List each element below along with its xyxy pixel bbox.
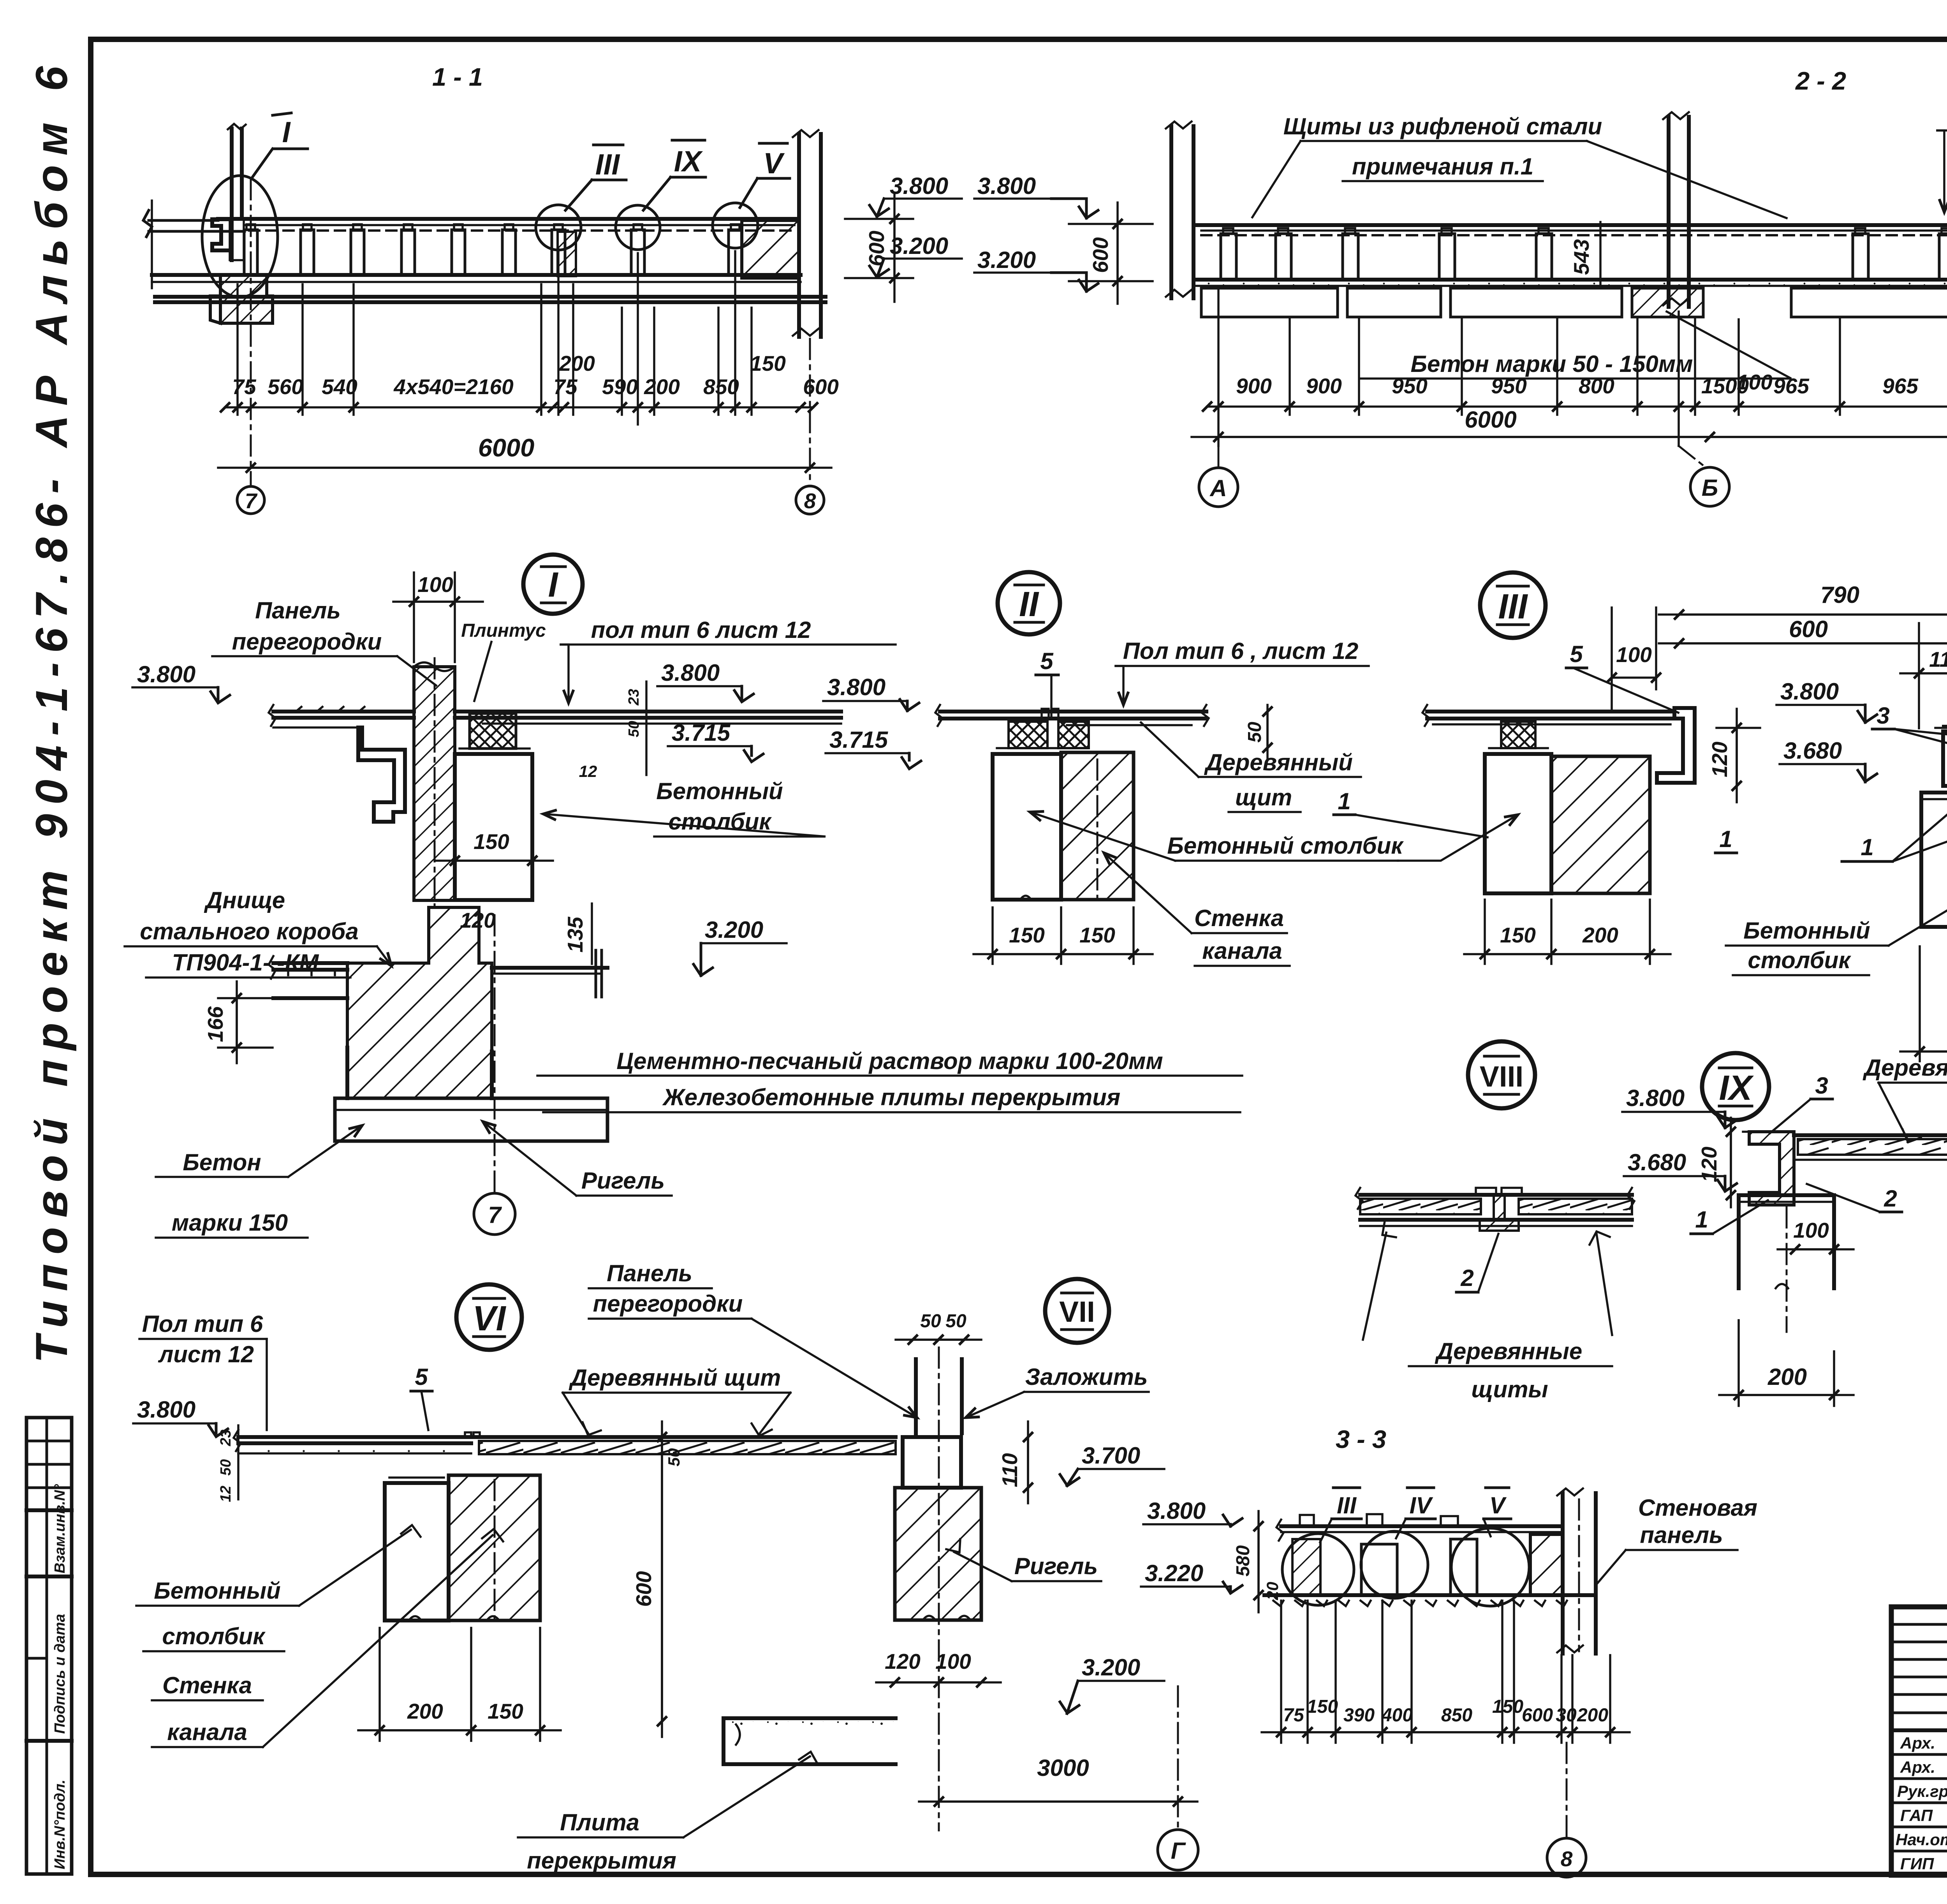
svg-text:6000: 6000 bbox=[478, 433, 535, 462]
dim 110 (detail IV) bbox=[1900, 623, 1947, 728]
support posts row (section 1-1) bbox=[244, 224, 742, 275]
floor slab band (section 2-2) bbox=[1194, 278, 1947, 282]
small stacked dims 23/50/12 (detail I) bbox=[579, 682, 646, 780]
rotated dim 120 (detail IX) bbox=[1697, 1118, 1731, 1207]
svg-text:150: 150 bbox=[1009, 923, 1045, 947]
svg-text:100: 100 bbox=[935, 1649, 971, 1673]
svg-text:V: V bbox=[1489, 1492, 1507, 1518]
dims 200 150 (detail VI) bbox=[358, 1628, 561, 1741]
svg-text:Бетон: Бетон bbox=[183, 1149, 261, 1175]
cross-hatched pad (detail III) bbox=[1501, 722, 1535, 748]
elevation 3.800 right (detail I) bbox=[657, 660, 753, 702]
floor slab band bbox=[152, 273, 801, 277]
svg-text:1: 1 bbox=[1338, 788, 1350, 814]
svg-text:3.220: 3.220 bbox=[1145, 1560, 1203, 1586]
svg-text:600: 600 bbox=[1522, 1705, 1553, 1726]
svg-text:Деревянный: Деревянный bbox=[1204, 749, 1353, 775]
detail circle IX on section 1-1 bbox=[616, 205, 660, 250]
axis bubble 7 (section 1-1) bbox=[237, 486, 264, 514]
vertical dim 600 (left of 2-2) bbox=[1069, 203, 1153, 304]
svg-text:75: 75 bbox=[1283, 1705, 1304, 1726]
svg-text:столбик: столбик bbox=[162, 1623, 266, 1649]
svg-text:IX: IX bbox=[674, 145, 703, 178]
svg-text:120: 120 bbox=[1708, 742, 1732, 777]
svg-text:135: 135 bbox=[563, 916, 587, 953]
svg-text:3.680: 3.680 bbox=[1628, 1149, 1686, 1175]
label: Бетонный столбик (detail VI) bbox=[136, 1525, 421, 1651]
elevation 3.800 (detail VI) bbox=[133, 1397, 228, 1437]
extension line left of 1-1 with breaks bbox=[151, 201, 153, 288]
svg-text:120: 120 bbox=[1697, 1147, 1721, 1182]
svg-text:600: 600 bbox=[632, 1571, 656, 1607]
svg-text:2: 2 bbox=[1884, 1185, 1897, 1212]
svg-text:3.715: 3.715 bbox=[829, 727, 889, 753]
svg-text:150: 150 bbox=[750, 351, 786, 375]
svg-text:ГАП: ГАП bbox=[1900, 1806, 1933, 1825]
svg-text:Цементно-песчаный раствор ма: Цементно-песчаный раствор марки 100-20мм bbox=[616, 1048, 1163, 1074]
svg-text:V: V bbox=[763, 147, 785, 180]
vertical dim 600 (detail VI right) bbox=[632, 1421, 662, 1737]
svg-text:Инв.N°подл.: Инв.N°подл. bbox=[52, 1779, 68, 1869]
Z-edge profile (detail III) bbox=[1657, 708, 1695, 783]
svg-text:200: 200 bbox=[1577, 1705, 1608, 1726]
deck wood segment (detail VI) bbox=[465, 1432, 896, 1454]
dims 50 50 (detail VII top) bbox=[896, 1311, 981, 1340]
rotated dim 50 (detail II) bbox=[1245, 705, 1267, 759]
elevation 3.220 (3-3) bbox=[1141, 1560, 1242, 1593]
svg-text:III: III bbox=[1337, 1492, 1357, 1518]
dim 600 (detail IV) bbox=[1659, 616, 1947, 643]
support posts row (section 2-2) bbox=[1221, 228, 1947, 280]
channel wall hatched (detail II) bbox=[1061, 752, 1134, 900]
label: Деревянные щиты (detail VIII) bbox=[1409, 1338, 1612, 1402]
svg-text:А: А bbox=[1209, 475, 1227, 501]
svg-text:столбик: столбик bbox=[1748, 947, 1851, 973]
svg-text:50: 50 bbox=[1245, 722, 1265, 743]
svg-text:5: 5 bbox=[415, 1364, 428, 1390]
elevation 3.680 (detail IV) bbox=[1780, 738, 1877, 782]
notes: Железобетонные плиты перекрытия bbox=[543, 1084, 1240, 1112]
elevation mark 3.200 (right of 1-1) bbox=[870, 233, 962, 277]
svg-text:пол тип 6 лист 12: пол тип 6 лист 12 bbox=[591, 617, 811, 643]
svg-text:3.800: 3.800 bbox=[137, 1397, 195, 1423]
svg-text:580: 580 bbox=[1233, 1545, 1253, 1576]
axis line 7 (section 1-1) bbox=[250, 179, 252, 485]
channel wall hatched (detail VI) bbox=[449, 1475, 540, 1620]
concrete post (detail IV) bbox=[1921, 793, 1947, 927]
svg-text:900: 900 bbox=[1236, 374, 1272, 398]
elevation 3.680 (detail IX) bbox=[1624, 1149, 1737, 1191]
svg-text:600: 600 bbox=[864, 231, 889, 266]
svg-text:Бетонный: Бетонный bbox=[154, 1578, 280, 1604]
label: Плита перекрытия (detail VII) bbox=[518, 1752, 818, 1874]
dimension chain row 1 (section 1-1): 75 560 540 4x540=2160 75 200 590 200 850 150 600 bbox=[225, 351, 839, 407]
svg-text:800: 800 bbox=[1579, 374, 1614, 398]
svg-text:Стенка: Стенка bbox=[162, 1672, 252, 1698]
lower footing of pier (detail I) bbox=[347, 1048, 492, 1098]
svg-text:540: 540 bbox=[322, 375, 357, 399]
notes: Цементно-песчаный раствор марки 100-20мм bbox=[537, 1048, 1242, 1076]
dim 790 (detail IV) bbox=[1659, 582, 1947, 615]
svg-text:Ригель: Ригель bbox=[1014, 1553, 1098, 1579]
label 1 with leader (detail IX) bbox=[1691, 1200, 1768, 1234]
elevation mark 3.800 (left of 2-2) bbox=[974, 173, 1098, 218]
svg-text:панель: панель bbox=[1640, 1522, 1723, 1548]
svg-text:590: 590 bbox=[602, 375, 638, 399]
elevation 3.700 (detail VII) bbox=[1060, 1443, 1164, 1486]
svg-text:50: 50 bbox=[945, 1311, 966, 1332]
elevation 3.200 (detail I) bbox=[694, 917, 787, 976]
steel box profile (detail IV) bbox=[1935, 726, 1947, 786]
dimension row 2 (section 1-1): 6000 bbox=[218, 433, 831, 468]
svg-text:150: 150 bbox=[1307, 1696, 1338, 1717]
svg-text:Днище: Днище bbox=[204, 887, 285, 913]
svg-text:390: 390 bbox=[1343, 1705, 1375, 1726]
svg-text:75: 75 bbox=[232, 375, 257, 399]
floor slab band (detail VII) bbox=[724, 1718, 896, 1764]
svg-text:120: 120 bbox=[885, 1649, 921, 1673]
svg-text:перекрытия: перекрытия bbox=[527, 1848, 676, 1874]
svg-text:Деревянный щит: Деревянный щит bbox=[569, 1365, 781, 1391]
label III with leader (section 1-1) bbox=[565, 145, 626, 210]
svg-text:Г: Г bbox=[1171, 1838, 1187, 1864]
axis line 8 (section 1-1) bbox=[809, 339, 811, 485]
svg-text:75: 75 bbox=[553, 375, 578, 399]
svg-text:110: 110 bbox=[1929, 647, 1947, 671]
svg-text:100: 100 bbox=[1616, 643, 1652, 667]
svg-text:200: 200 bbox=[407, 1699, 443, 1723]
svg-text:IX: IX bbox=[1719, 1069, 1754, 1108]
detail bubble VII bbox=[1045, 1279, 1109, 1343]
svg-text:600: 600 bbox=[1088, 237, 1113, 273]
svg-text:543: 543 bbox=[1569, 239, 1593, 275]
svg-text:3.800: 3.800 bbox=[137, 661, 195, 687]
svg-text:3.680: 3.680 bbox=[1783, 738, 1842, 764]
svg-text:950: 950 bbox=[1392, 374, 1428, 398]
left column of 2-2 (axis A wall) bbox=[1166, 122, 1194, 298]
svg-text:100: 100 bbox=[417, 572, 453, 597]
svg-text:Арх.: Арх. bbox=[1900, 1734, 1935, 1752]
svg-text:Деревянный щит: Деревянный щит bbox=[1863, 1055, 1947, 1081]
svg-text:стального короба: стального короба bbox=[140, 918, 358, 944]
elevation 3.800 left (detail I) bbox=[132, 661, 230, 703]
svg-text:600: 600 bbox=[1789, 616, 1828, 642]
svg-text:Ригель: Ригель bbox=[581, 1168, 665, 1194]
svg-text:1: 1 bbox=[1719, 826, 1732, 852]
elevation 3.800 (detail IV) bbox=[1776, 678, 1877, 722]
svg-text:II: II bbox=[1019, 585, 1039, 624]
svg-text:щит: щит bbox=[1235, 784, 1292, 810]
svg-text:790: 790 bbox=[1820, 582, 1859, 608]
rotated dim 110 (detail VII) bbox=[998, 1421, 1028, 1503]
svg-text:марки 150: марки 150 bbox=[172, 1210, 288, 1236]
ground slab with serration (3-3) bbox=[1264, 1595, 1596, 1606]
svg-text:20: 20 bbox=[1263, 1582, 1282, 1601]
elevation 3.715 right (detail I) bbox=[668, 720, 763, 762]
steel channel bracket in detail I balloon bbox=[212, 219, 229, 250]
svg-text:5: 5 bbox=[1040, 648, 1054, 674]
svg-text:2 - 2: 2 - 2 bbox=[1795, 67, 1846, 95]
label I with leader (section 1-1) bbox=[252, 113, 308, 178]
wall right (3-3) bbox=[1530, 1488, 1596, 1654]
label: Стеновая панель (3-3) bbox=[1597, 1495, 1757, 1584]
svg-text:3.800: 3.800 bbox=[1626, 1085, 1685, 1111]
dims 120 100 (detail VII) bbox=[876, 1649, 1001, 1682]
labels 1 with leaders (detail IV) bbox=[1715, 790, 1947, 861]
axis bubble Б (2-2) bbox=[1679, 446, 1706, 467]
svg-text:560: 560 bbox=[268, 375, 303, 399]
cross-hatched pads (detail II) bbox=[1009, 722, 1047, 748]
svg-text:150: 150 bbox=[1500, 923, 1536, 947]
svg-text:3.200: 3.200 bbox=[705, 917, 763, 943]
label: Деревянный щит (detail VI) bbox=[563, 1365, 790, 1436]
elevation 3.800 (detail IX) bbox=[1622, 1085, 1737, 1128]
label 2 with leader (detail IX) bbox=[1807, 1184, 1902, 1212]
partition panel hatched (detail I) bbox=[414, 667, 455, 900]
wood deck right (detail IX) bbox=[1794, 1129, 1947, 1160]
svg-text:5: 5 bbox=[1570, 641, 1583, 667]
svg-text:100: 100 bbox=[1737, 370, 1773, 394]
deck lines (3-3) bbox=[1276, 1520, 1563, 1541]
dimension row (3-3) bbox=[1262, 1601, 1630, 1743]
channel wall hatched (detail III) bbox=[1551, 756, 1650, 893]
detail bubble VIII bbox=[1468, 1041, 1535, 1108]
label 5 (detail III) bbox=[1566, 641, 1678, 713]
svg-text:Панель: Панель bbox=[607, 1260, 692, 1286]
concrete post (detail I) bbox=[455, 749, 532, 900]
svg-text:Плинтус: Плинтус bbox=[461, 620, 546, 641]
svg-text:Бетонный: Бетонный bbox=[656, 778, 783, 804]
detail bubble I bbox=[523, 555, 583, 614]
small dim 100 (detail III) bbox=[1612, 608, 1656, 709]
hatched pad near detail III circle bbox=[558, 232, 576, 276]
detail bubble II bbox=[998, 572, 1060, 634]
svg-text:3.800: 3.800 bbox=[661, 660, 720, 686]
concrete post (detail VI) bbox=[385, 1478, 449, 1620]
detail circle III on section 1-1 bbox=[536, 205, 581, 250]
elevation 3.715 (detail II) bbox=[826, 727, 921, 769]
deck (detail II) bbox=[935, 705, 1209, 726]
dims 150 200 (detail III) bbox=[1464, 900, 1671, 964]
extension lines to dimension row (section 1-1) bbox=[238, 249, 752, 424]
steel angle support (detail I) bbox=[358, 727, 405, 822]
svg-text:965: 965 bbox=[1882, 374, 1919, 398]
svg-text:50: 50 bbox=[218, 1459, 234, 1476]
label: Плинтус (detail I) bbox=[461, 620, 546, 701]
bottom steel tray plate (detail I) bbox=[269, 956, 347, 998]
svg-text:Взам.инв.N°: Взам.инв.N° bbox=[52, 1484, 68, 1573]
deck (detail III) bbox=[1422, 705, 1674, 726]
svg-text:IV: IV bbox=[1410, 1492, 1434, 1518]
label: Ригель (detail VII) bbox=[946, 1539, 1101, 1581]
rotated dim 120 (detail IV) bbox=[1708, 709, 1760, 802]
label: Деревянный щит (detail II) bbox=[1141, 722, 1361, 812]
svg-text:Стеновая: Стеновая bbox=[1638, 1495, 1757, 1521]
label: Стенка канала (detail VI) bbox=[152, 1529, 503, 1747]
dim 100 (detail IX) bbox=[1778, 1218, 1854, 1249]
under-deck dashed line bbox=[249, 229, 792, 232]
label 5 with leader (detail II) bbox=[1036, 648, 1058, 709]
left broken stub of slab bbox=[143, 210, 245, 237]
svg-text:Железобетонные плиты перекры: Железобетонные плиты перекрытия bbox=[662, 1084, 1120, 1110]
svg-text:Стенка: Стенка bbox=[1194, 905, 1284, 931]
axis bubble 8 (section 1-1) bbox=[796, 486, 824, 514]
dim 3000 (detail VII) bbox=[919, 1755, 1197, 1802]
hatched wall at right end of 1-1 bbox=[742, 220, 799, 278]
hatched post (3-3) bbox=[1292, 1539, 1320, 1595]
svg-text:166: 166 bbox=[203, 1006, 227, 1042]
steel column to be walled-in (detail VII) bbox=[916, 1347, 962, 1830]
label IX with leader (section 1-1) bbox=[643, 140, 706, 210]
right-side vertical dim 600 of section 1-1 bbox=[845, 195, 913, 302]
svg-text:III: III bbox=[1498, 587, 1528, 626]
svg-text:3000: 3000 bbox=[1037, 1755, 1089, 1781]
svg-text:VIII: VIII bbox=[1480, 1060, 1524, 1093]
footing hatched blocks under detail I bbox=[220, 275, 273, 323]
svg-text:110: 110 bbox=[998, 1453, 1022, 1487]
ribbed slab plates under 2-2 floor bbox=[1201, 288, 1947, 317]
axis bubble 7 (detail I) bbox=[494, 915, 496, 1192]
extension lines from posts down to dims (2-2) bbox=[1218, 288, 1947, 446]
elevation 3.800 (3-3) bbox=[1143, 1498, 1242, 1526]
label 1 with leader (detail III) bbox=[1334, 788, 1488, 837]
svg-text:7: 7 bbox=[488, 1202, 502, 1228]
svg-text:8: 8 bbox=[804, 489, 816, 513]
svg-text:1 - 1: 1 - 1 bbox=[432, 63, 483, 91]
deck left segment (detail VI) bbox=[234, 1430, 471, 1453]
label: Пол тип 6 / лист 12 (2-2) bbox=[1937, 103, 1947, 212]
svg-text:3.200: 3.200 bbox=[1082, 1654, 1140, 1680]
svg-text:3.800: 3.800 bbox=[977, 173, 1036, 199]
inspection circles III IV V on 3-3 bbox=[1282, 1534, 1354, 1605]
svg-text:Щиты из рифленой стали: Щиты из рифленой стали bbox=[1283, 113, 1602, 139]
detail bubble VI bbox=[456, 1284, 522, 1350]
svg-text:перегородки: перегородки bbox=[232, 629, 382, 655]
label V with leader (section 1-1) bbox=[740, 143, 790, 208]
labels III IV V over 3-3 bbox=[1320, 1488, 1511, 1542]
dim 100 over partition (detail I) bbox=[393, 572, 483, 662]
svg-text:965: 965 bbox=[1773, 374, 1810, 398]
svg-text:150: 150 bbox=[1079, 923, 1115, 947]
label: Бетон марки 50 - 150мм (under 2-2) bbox=[1361, 312, 1791, 379]
svg-text:Бетонный: Бетонный bbox=[1743, 918, 1870, 944]
svg-text:12: 12 bbox=[218, 1486, 234, 1502]
svg-text:I: I bbox=[282, 116, 291, 148]
svg-text:30: 30 bbox=[1556, 1705, 1577, 1726]
svg-text:Панель: Панель bbox=[255, 597, 341, 624]
svg-text:8: 8 bbox=[1561, 1847, 1573, 1871]
svg-text:50: 50 bbox=[626, 721, 642, 737]
svg-text:щиты: щиты bbox=[1471, 1376, 1548, 1402]
svg-text:3.800: 3.800 bbox=[827, 674, 885, 700]
svg-text:850: 850 bbox=[1441, 1705, 1472, 1726]
svg-text:100: 100 bbox=[1793, 1218, 1829, 1242]
svg-text:примечания п.1: примечания п.1 bbox=[1352, 153, 1533, 180]
label: Днище стального короба ТП904-1- -КМ (detail I) bbox=[125, 887, 391, 978]
label: Бетон марки 150 (detail I) bbox=[156, 1125, 362, 1238]
column post inside detail I balloon bbox=[228, 124, 246, 260]
svg-text:3 - 3: 3 - 3 bbox=[1336, 1425, 1386, 1453]
svg-text:Арх.: Арх. bbox=[1900, 1758, 1935, 1776]
axis bubble A (2-2) bbox=[1218, 446, 1220, 467]
svg-text:Нач.отд.: Нач.отд. bbox=[1896, 1830, 1947, 1849]
svg-text:лист 12: лист 12 bbox=[158, 1341, 254, 1367]
svg-text:Плита: Плита bbox=[560, 1809, 639, 1835]
dims 150 150 (detail II) bbox=[974, 907, 1153, 964]
svg-text:VII: VII bbox=[1059, 1295, 1095, 1328]
svg-text:Б: Б bbox=[1702, 475, 1718, 501]
svg-text:Рук.гр.: Рук.гр. bbox=[1897, 1782, 1947, 1800]
cross-hatched gasket on post (detail I) bbox=[470, 713, 516, 749]
svg-text:150: 150 bbox=[1492, 1696, 1523, 1717]
svg-text:3.200: 3.200 bbox=[977, 247, 1036, 273]
svg-text:3.800: 3.800 bbox=[890, 173, 948, 199]
dim 150 on post (detail I) bbox=[436, 830, 553, 861]
svg-text:3: 3 bbox=[1815, 1073, 1828, 1099]
label: Панель перегородки (detail I) bbox=[212, 597, 436, 685]
label: Пол тип 6 / лист 12 (detail VI) bbox=[139, 1311, 267, 1430]
concrete post (detail IX) bbox=[1739, 1195, 1834, 1332]
svg-text:Деревянные: Деревянные bbox=[1435, 1338, 1583, 1364]
center joint with T-bar (detail VIII) bbox=[1476, 1188, 1522, 1231]
svg-text:2: 2 bbox=[1460, 1265, 1473, 1291]
detail circle V on section 1-1 bbox=[713, 203, 758, 248]
svg-text:23: 23 bbox=[218, 1430, 234, 1446]
svg-text:50: 50 bbox=[920, 1311, 941, 1332]
dimension chain row 1 (2-2) bbox=[1207, 370, 1947, 407]
elevation mark 3.200 (left of 2-2) bbox=[974, 247, 1098, 291]
plain post (3-3) bbox=[1451, 1539, 1477, 1595]
svg-text:3: 3 bbox=[1877, 703, 1889, 729]
svg-text:III: III bbox=[595, 148, 621, 181]
dotted post (3-3) bbox=[1361, 1544, 1397, 1595]
wall pier hatched block (detail I) bbox=[347, 907, 492, 1098]
svg-text:50: 50 bbox=[665, 1448, 683, 1467]
label: Стенка канала (detail II) bbox=[1104, 853, 1290, 966]
deck right of wall (detail I) bbox=[455, 712, 841, 724]
floor deck lines (section 2-2) bbox=[1194, 223, 1947, 227]
elevation 3.200 (detail VII) bbox=[1060, 1654, 1164, 1714]
detail bubble IX bbox=[1702, 1053, 1769, 1120]
title block signatures column texts bbox=[1896, 1734, 1947, 1873]
axis bubble Г (detail VII) bbox=[1177, 1686, 1179, 1829]
label 3 with leaders (detail IV) bbox=[1872, 703, 1947, 775]
svg-text:ГИП: ГИП bbox=[1900, 1855, 1934, 1873]
svg-text:1: 1 bbox=[1861, 834, 1873, 860]
svg-text:23: 23 bbox=[626, 689, 642, 706]
steel channel (detail IX) bbox=[1743, 1132, 1794, 1205]
svg-text:Бетон марки 50 - 150мм: Бетон марки 50 - 150мм bbox=[1410, 351, 1693, 377]
svg-text:200: 200 bbox=[644, 375, 680, 399]
label 2 with leader (detail VIII) bbox=[1456, 1234, 1498, 1292]
floor deck top lines (section 1-1) bbox=[218, 217, 799, 221]
svg-text:600: 600 bbox=[803, 375, 839, 399]
svg-text:перегородки: перегородки bbox=[593, 1291, 743, 1317]
label: Заложить (detail VII) bbox=[966, 1364, 1149, 1418]
column at axis Б (2-2) bbox=[1663, 112, 1689, 307]
svg-text:400: 400 bbox=[1381, 1705, 1413, 1726]
axis bubble 8 (3-3) bbox=[1566, 1743, 1568, 1838]
svg-text:4х540=2160: 4х540=2160 bbox=[393, 375, 514, 399]
left attribute sidebar table bbox=[26, 1418, 72, 1874]
right column (axis 8) bbox=[793, 130, 821, 337]
stacked rotated dims 23/50/12 (detail VI) bbox=[218, 1425, 238, 1502]
dimension row 2 (2-2): 6000 6000 3000 bbox=[1192, 407, 1947, 437]
elevation 3.800 (detail II) bbox=[823, 674, 919, 711]
svg-text:3.800: 3.800 bbox=[1147, 1498, 1206, 1524]
label: Панель перегородки (detail VII header) bbox=[589, 1260, 917, 1418]
svg-text:VI: VI bbox=[472, 1299, 506, 1338]
